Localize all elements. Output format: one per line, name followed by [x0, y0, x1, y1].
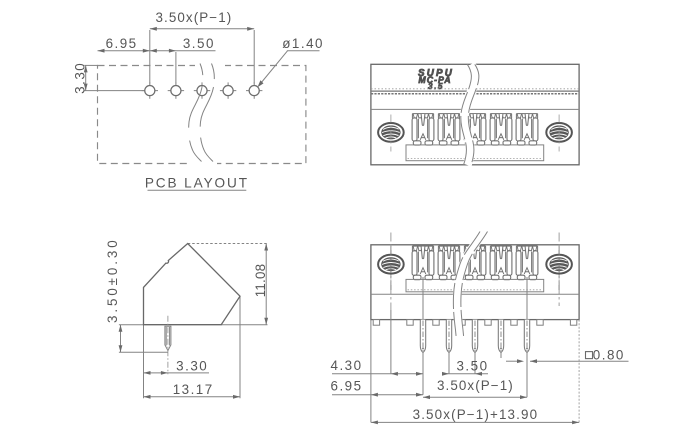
svg-text:13.17: 13.17	[173, 382, 214, 397]
svg-text:6.95: 6.95	[106, 36, 138, 51]
svg-text:3.30: 3.30	[72, 62, 87, 94]
svg-text:3.50: 3.50	[456, 358, 488, 373]
svg-text:3.5: 3.5	[428, 82, 444, 91]
svg-text:3.50x(P−1)+13.90: 3.50x(P−1)+13.90	[413, 407, 539, 422]
svg-text:11.08: 11.08	[253, 264, 268, 298]
svg-text:3.30: 3.30	[176, 358, 208, 373]
svg-text:4.30: 4.30	[331, 358, 363, 373]
svg-text:3.50x(P−1): 3.50x(P−1)	[437, 378, 514, 393]
svg-text:3.50: 3.50	[183, 36, 215, 51]
svg-text:6.95: 6.95	[331, 378, 363, 393]
svg-text:0.80: 0.80	[593, 347, 625, 362]
svg-text:3.50±0.30: 3.50±0.30	[105, 237, 120, 323]
svg-text:3.50x(P−1): 3.50x(P−1)	[155, 10, 232, 25]
svg-text:ø1.40: ø1.40	[282, 36, 324, 51]
svg-text:PCB LAYOUT: PCB LAYOUT	[145, 176, 249, 191]
